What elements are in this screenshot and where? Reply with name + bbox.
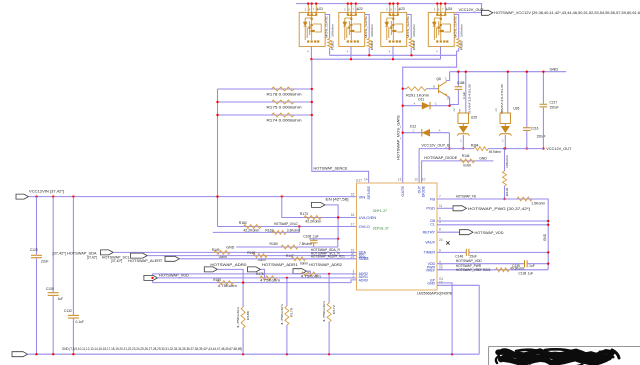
junction C216/out rail <box>526 147 528 149</box>
input flag HOTSWAP_ADR2 <box>293 269 306 274</box>
svg-text:HOTSWAP_OVLO: HOTSWAP_OVLO <box>274 222 298 226</box>
junction U25/GND rail <box>465 71 467 73</box>
pin name DIODE <box>422 185 426 197</box>
svg-text:FB: FB <box>430 197 435 202</box>
svg-text:4.75Kohm: 4.75Kohm <box>218 284 237 288</box>
svg-text:U25: U25 <box>471 116 477 120</box>
value label R363 <box>370 40 374 50</box>
pin label D12 C <box>413 128 415 132</box>
junction D11/C188 <box>448 105 450 107</box>
refdes label C130 <box>46 287 54 291</box>
pin name OUT <box>418 185 422 193</box>
value label C129 <box>41 260 49 264</box>
svg-text:C216: C216 <box>531 126 539 130</box>
pin number 8 right <box>439 228 441 232</box>
wire ADR1 to R179 <box>286 278 288 306</box>
junction CB/GND bus <box>547 220 549 222</box>
value label R304 <box>489 150 501 154</box>
wire PGD <box>437 207 453 209</box>
pin label Q6 E <box>447 96 449 100</box>
net label MOS_GATE U23 <box>406 16 410 38</box>
value label C188 <box>462 92 466 99</box>
pin name OVLO <box>359 224 370 229</box>
pin 4 U23 <box>389 49 391 53</box>
svg-text:VAUX: VAUX <box>425 241 435 245</box>
svg-text:12: 12 <box>414 178 418 182</box>
capacitor C188 <box>455 87 463 90</box>
svg-text:DIODE: DIODE <box>422 185 426 197</box>
svg-text:100ohm: 100ohm <box>370 23 374 37</box>
svg-text:16: 16 <box>351 213 355 217</box>
pin name VAUX <box>425 241 435 245</box>
net label GND top right <box>550 66 559 71</box>
svg-text:4.75Kohm: 4.75Kohm <box>280 303 284 325</box>
junction gate/D11 <box>402 105 404 107</box>
junction VDD/GND bus <box>547 263 549 265</box>
input flag EN <box>312 202 326 207</box>
net label HOTSWAP_ADR2 <box>309 263 342 267</box>
mosfet module U23 <box>381 4 407 60</box>
junction U26/GND rail <box>507 71 509 73</box>
svg-text:42.2Kohm: 42.2Kohm <box>305 220 321 224</box>
svg-text:C132: C132 <box>64 309 72 313</box>
svg-text:C108 .1uF: C108 .1uF <box>303 235 318 239</box>
value label R175 <box>267 106 302 110</box>
svg-text:A2: A2 <box>452 108 456 112</box>
pin label Q6 B <box>433 85 435 89</box>
svg-text:C: C <box>435 101 437 105</box>
capacitor C139 <box>525 260 528 267</box>
resistor R163 <box>273 230 287 234</box>
op-amp U17 LM25066APSQ hot-swap controller <box>357 183 438 290</box>
junction U25/out rail <box>462 147 464 149</box>
resistor R180 <box>281 245 298 249</box>
svg-text:OVLO: OVLO <box>359 224 370 229</box>
pin 4 U21 <box>307 49 309 53</box>
mosfet module U22 <box>339 4 365 60</box>
svg-text:C129: C129 <box>30 248 38 252</box>
refdes label R304 <box>471 143 479 147</box>
svg-text:019*L8..27: 019*L8..27 <box>373 226 389 230</box>
refdes label R149 <box>212 248 220 252</box>
pin number 16 right <box>439 281 443 285</box>
wire C188 top <box>457 72 459 87</box>
sheet ref SCL <box>111 259 122 263</box>
svg-text:HOTSWAP_VDD: HOTSWAP_VDD <box>456 259 483 263</box>
net label VCC12VIN <box>29 188 64 193</box>
wire R218 bottom lead <box>504 186 506 199</box>
capacitor C132 <box>68 315 79 318</box>
sheet ref SDA <box>87 256 97 260</box>
svg-text:VCC12VIN [37,42*]: VCC12VIN [37,42*] <box>29 188 64 193</box>
net label HOTSWAP_SCL <box>102 256 130 260</box>
capacitor C148 <box>466 249 469 256</box>
junction gate/D12 <box>402 132 404 134</box>
svg-text:U23: U23 <box>399 7 405 11</box>
svg-text:HOTSWAP_ALERT: HOTSWAP_ALERT <box>128 259 163 263</box>
svg-text:[37,42*]: [37,42*] <box>87 256 97 260</box>
refdes label C188 <box>457 81 465 85</box>
svg-text:GND: GND <box>226 246 234 250</box>
wire VDD tie vertical <box>152 274 154 283</box>
wire CL line <box>437 224 548 226</box>
svg-text:49.9ohm: 49.9ohm <box>489 150 501 154</box>
wire sense bus right / HOTSWAP_SENCE <box>312 59 369 183</box>
svg-text:Q6: Q6 <box>436 77 441 81</box>
wire ADR2 to R172 <box>328 274 330 303</box>
part label U25 <box>468 84 472 114</box>
pin number 4 right <box>439 260 441 264</box>
svg-text:R180: R180 <box>270 242 278 246</box>
net label MOS_GATE U22 <box>364 16 368 38</box>
resistor R364 gate <box>409 39 413 49</box>
junction R218 top <box>503 147 505 149</box>
svg-text:1uF: 1uF <box>58 297 64 301</box>
pin number 7 right <box>439 195 441 199</box>
mosfet module U24 <box>428 4 454 60</box>
value label R180 <box>299 242 312 246</box>
svg-text:0ohm: 0ohm <box>300 261 308 265</box>
wire VCC12V_OUT top rail <box>296 4 482 13</box>
resistor R176 <box>260 276 277 280</box>
refdes label R186 <box>246 311 250 320</box>
refdes label U24 <box>446 7 452 11</box>
svg-text:10Kohm: 10Kohm <box>505 154 509 168</box>
refdes label R182 <box>239 221 247 225</box>
junction <box>368 54 370 56</box>
pin name SMBA <box>359 257 370 261</box>
value label R176 <box>260 279 280 283</box>
value label 100ohm U21 <box>330 23 334 37</box>
resistor R363 gate <box>367 39 371 49</box>
svg-text:150uF: 150uF <box>537 135 546 139</box>
svg-text:24: 24 <box>439 238 443 242</box>
net label MOS_GATE U21 <box>324 16 328 38</box>
wire R291 left <box>403 88 407 90</box>
wire RETRY <box>437 231 460 233</box>
value label 100ohm U24 <box>460 23 464 37</box>
svg-text:HOTSWAP_ALERT_R21: HOTSWAP_ALERT_R21 <box>311 255 345 259</box>
pin number 20 left <box>351 252 355 256</box>
pin number 24 right <box>439 238 443 242</box>
pin 4 U24 <box>436 49 438 53</box>
svg-text:SENSE: SENSE <box>366 186 371 200</box>
junction R175 left <box>216 101 218 103</box>
pin label U26 C <box>502 139 504 143</box>
svg-text:3.3Kohm: 3.3Kohm <box>287 229 300 233</box>
net label HOTSWAP_PWG <box>468 207 530 211</box>
junction top rail U22 <box>350 2 352 4</box>
wire FB line and GND bus <box>437 199 548 270</box>
wire ADR1 flag drop <box>261 269 265 278</box>
net label HOTSWAP_SCL_R <box>311 251 341 255</box>
net label HOTSWAP_VDD retry <box>475 231 504 235</box>
svg-text:VREF: VREF <box>426 269 435 273</box>
pin name VIN <box>359 194 366 199</box>
pin name PGD <box>426 206 435 211</box>
resistor R182 <box>244 225 262 229</box>
resistor R172 <box>327 303 331 322</box>
value label 100ohm U22 <box>370 23 374 37</box>
junction EN/UVLO <box>337 216 339 218</box>
value label R221 <box>510 266 524 270</box>
svg-text:HOTSWAP_VCC12V [29,38,40,41,4: HOTSWAP_VCC12V [29,38,40,41,42*,43,44,46… <box>494 11 640 15</box>
pin numbers U24 top <box>434 7 449 11</box>
svg-text:49.9Kohm: 49.9Kohm <box>510 266 524 270</box>
refdes label U21 <box>317 7 323 11</box>
pin number 3 left <box>353 275 355 279</box>
resistor R185 <box>217 281 234 285</box>
svg-text:U22: U22 <box>357 7 363 11</box>
wire CB line <box>437 220 548 222</box>
pin number 14 <box>364 178 368 182</box>
svg-text:R176: R176 <box>256 272 264 276</box>
svg-text:R186: R186 <box>246 311 250 320</box>
svg-text:HOTSWAP_MOS_GATE: HOTSWAP_MOS_GATE <box>396 115 400 160</box>
net label HOTSWAP_FB <box>456 194 476 198</box>
value label R365 <box>460 40 464 50</box>
pin label D12 A <box>439 128 441 132</box>
refdes label R147 <box>286 254 294 258</box>
output flag HOTSWAP_PWG <box>453 206 467 211</box>
junction C217/GND rail <box>542 71 544 73</box>
wire R218 top lead <box>504 149 506 171</box>
resistor R186 <box>241 307 245 328</box>
svg-text:A: A <box>414 101 416 105</box>
junction GND rail <box>52 353 54 355</box>
wire C108 line <box>309 238 338 240</box>
junction VIN rail <box>72 195 74 197</box>
capacitor C129 <box>31 255 42 258</box>
pin number 23 right <box>439 267 443 271</box>
junction top rail U22 <box>347 2 349 4</box>
svg-text:EN [42*,56]: EN [42*,56] <box>326 197 349 201</box>
svg-text:VCC12V_OUT_B: VCC12V_OUT_B <box>422 144 451 148</box>
refdes label R176 <box>256 272 264 276</box>
junction VIN rail <box>281 195 283 197</box>
svg-text:100ohm: 100ohm <box>412 23 416 37</box>
wire C129 top <box>36 197 38 255</box>
wire U25 A1 <box>465 72 467 113</box>
pin number 5 right <box>439 220 441 224</box>
value label C138 <box>519 272 534 276</box>
tvs U26 <box>499 109 511 149</box>
part label U26 <box>500 84 504 114</box>
svg-text:HOTSWAP_ADR2: HOTSWAP_ADR2 <box>309 263 342 267</box>
junction C216/GND rail <box>526 71 528 73</box>
part label LM25066APSQ/NOPB <box>417 291 452 295</box>
svg-text:0ohm: 0ohm <box>463 163 471 167</box>
input flag HOTSWAP_ALERT <box>165 256 179 261</box>
wire SCL line <box>147 255 356 257</box>
svg-text:D11: D11 <box>418 98 424 102</box>
output flag HOTSWAP_VCC12V <box>482 10 493 15</box>
net label VCC12V_OUT right <box>546 147 572 151</box>
net label VCC12V_OUT top <box>459 7 485 12</box>
svg-text:R179: R179 <box>290 308 294 317</box>
wire HOTSWAP_DIODE <box>422 161 494 183</box>
wire VIN rail <box>29 196 357 198</box>
svg-text:HOTSWAP_SENCE: HOTSWAP_SENCE <box>314 165 348 170</box>
wire ADR2 flag drop <box>306 271 310 274</box>
junction GND rail <box>35 353 37 355</box>
refdes label U26 <box>513 107 519 111</box>
net label GND bus <box>543 233 547 241</box>
wire C130 top <box>52 197 54 293</box>
wire drain rail <box>311 58 440 60</box>
resistor R217 <box>517 197 532 201</box>
junction top rail U24 <box>440 2 442 4</box>
svg-text:SVM1545LB: SVM1545LB <box>500 84 504 114</box>
wire ADR2 line <box>153 273 357 275</box>
svg-text:VCC12V_OUT: VCC12V_OUT <box>546 147 572 151</box>
value label C216 <box>537 135 546 139</box>
junction R178 right <box>311 88 313 90</box>
wire GND rail top right <box>450 71 567 73</box>
junction CL/GND bus <box>547 224 549 226</box>
title block frame <box>489 346 640 365</box>
svg-text:17: 17 <box>351 222 355 226</box>
junction R174 left <box>216 114 218 116</box>
svg-text:150uF: 150uF <box>550 106 559 110</box>
capacitor C108 <box>310 239 318 247</box>
wire C130 bottom <box>52 296 54 354</box>
pin label U26 A2 <box>494 108 498 112</box>
net label HOTSWAP_ALERT <box>128 259 163 263</box>
junction GND rail <box>72 353 74 355</box>
wire OUT pin stub <box>418 149 420 183</box>
wire U26 A1 <box>507 72 509 113</box>
input flag HOTSWAP_ADR0 <box>204 267 217 272</box>
svg-text:B: B <box>433 85 435 89</box>
svg-text:R147: R147 <box>286 254 294 258</box>
value label R177 <box>301 274 321 278</box>
wire D11 line <box>403 105 450 107</box>
mosfet module U21 <box>299 4 325 60</box>
pin numbers U23 top <box>386 7 401 11</box>
pin label D11 A <box>414 101 416 105</box>
refdes label C148 <box>455 255 463 259</box>
wire GND pin to rail <box>437 285 479 354</box>
junction C188/GND rail <box>457 71 459 73</box>
wire D12 line <box>403 132 450 134</box>
refdes label R179 <box>290 308 294 317</box>
pin number 19 left <box>351 249 355 253</box>
wire OVLO line <box>218 226 357 228</box>
wire TIMER right <box>469 251 548 253</box>
svg-text:MOS_GATE: MOS_GATE <box>453 16 457 38</box>
resistor R149 <box>214 250 230 254</box>
resistor R173 <box>304 216 321 220</box>
pin name RETRY <box>423 231 436 235</box>
pin name ADR0 <box>359 278 368 282</box>
value label C148 <box>469 255 477 259</box>
svg-text:10: 10 <box>422 178 426 182</box>
refdes label R163 <box>265 229 273 233</box>
pin name SCL <box>359 254 366 258</box>
ground flag GND <box>12 352 28 357</box>
refdes label R180 <box>270 242 278 246</box>
svg-text:R363: R363 <box>370 40 374 50</box>
pin number 15 left <box>351 193 355 197</box>
junction top rail U23 <box>389 2 391 4</box>
pin name ADR2 <box>359 272 368 276</box>
junction VDD tie <box>151 277 153 279</box>
capacitor C216 <box>523 128 531 131</box>
net label HOTSWAP_VDD left <box>159 273 189 277</box>
svg-text:MOS_GATE: MOS_GATE <box>364 16 368 38</box>
value label C130 <box>58 297 64 301</box>
refdes label R218 <box>505 188 509 196</box>
pin label Q6 C <box>445 76 447 80</box>
pin number 21 left <box>351 255 355 259</box>
resistor R218 <box>503 171 507 186</box>
junction GND rail <box>286 353 288 355</box>
svg-text:C148: C148 <box>455 255 463 259</box>
wire C216 bottom <box>526 131 528 149</box>
wire C132 bottom <box>72 319 74 355</box>
wire C217 top <box>542 72 544 104</box>
wire ADR1 line <box>158 277 357 279</box>
value label R149 <box>219 255 227 259</box>
junction R218/FB <box>503 198 505 200</box>
wire R291 right <box>427 88 438 90</box>
svg-text:1.5Kohm: 1.5Kohm <box>531 202 545 206</box>
refdes label C216 <box>531 126 539 130</box>
svg-text:0.1uF: 0.1uF <box>462 92 466 99</box>
wire C217 bottom <box>542 108 544 149</box>
junction top rail U21 <box>311 2 313 4</box>
input flag HOTSWAP_SDA <box>101 250 114 255</box>
junction VIN rail <box>216 195 218 197</box>
svg-text:MOS_GATE: MOS_GATE <box>406 16 410 38</box>
refdes label R146 <box>462 154 470 158</box>
input flag HOTSWAP_ADR1 <box>248 267 261 272</box>
refdes label Q6 <box>436 77 441 81</box>
pin number 10 <box>422 178 426 182</box>
svg-text:C138 .1uF: C138 .1uF <box>519 272 534 276</box>
svg-text:R304: R304 <box>471 143 479 147</box>
net label HOTSWAP_OVLO <box>274 222 298 226</box>
capacitor C217 <box>540 104 548 107</box>
junction top rail U23 <box>392 2 394 4</box>
wire R172 bottom <box>328 322 330 354</box>
junction top rail U21 <box>307 2 309 4</box>
pin number 12 <box>414 178 418 182</box>
svg-text:22uF: 22uF <box>41 260 49 264</box>
svg-text:14: 14 <box>364 178 368 182</box>
note text 1 <box>373 209 387 213</box>
wire VDD line left <box>437 263 524 265</box>
wire TIMER left <box>437 251 466 253</box>
junction <box>410 54 412 56</box>
svg-text:C: C <box>413 128 415 132</box>
refdes label U22 <box>357 7 363 11</box>
svg-text:U17: U17 <box>356 179 362 183</box>
svg-text:100ohm: 100ohm <box>460 23 464 37</box>
refdes label U17 <box>356 179 362 183</box>
svg-text:R362: R362 <box>330 40 334 50</box>
resistor R291 <box>407 87 427 91</box>
wire sense bus left <box>217 89 219 227</box>
pin number 9 right <box>439 249 441 253</box>
net label MOS_GATE U24 <box>453 16 457 38</box>
resistor R178 <box>272 87 295 91</box>
transistor Q6 <box>437 81 447 97</box>
resistor R148 <box>253 254 267 258</box>
value label R148 <box>258 258 266 262</box>
svg-text:13: 13 <box>398 178 402 182</box>
